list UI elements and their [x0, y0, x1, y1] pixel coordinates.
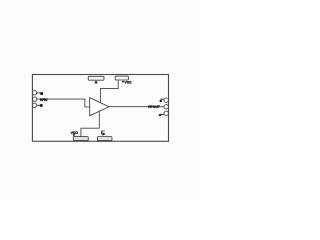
capacitor C1 (top-left pad) [88, 76, 104, 80]
VDD arrow [73, 134, 76, 136]
inductor L1 orientation arrow [102, 131, 105, 135]
VSS arrow [122, 81, 124, 83]
svg-text:VDD: VDD [71, 131, 79, 135]
capacitor C2 (top-right pad) [115, 76, 128, 80]
svg-text:RFIN: RFIN [40, 98, 48, 102]
svg-text:RFOUT: RFOUT [148, 105, 161, 109]
board outline [32, 75, 168, 142]
wire RFIN input [37, 99, 90, 107]
J1 top ground pad [37, 92, 41, 94]
connector J1 RFIN (left, 3 pins) [32, 91, 36, 95]
inductor L1 (bottom-right pad) [97, 137, 112, 141]
J2 bottom ground mark [161, 113, 164, 116]
wire VSS supply: C2 to amp top [100, 80, 118, 103]
op-amp U1 (amplifier triangle) [90, 98, 109, 116]
J1 bottom ground pad [37, 104, 40, 106]
wire RFOUT output [109, 106, 164, 108]
connector J2 RFOUT (right, 3 pins) [164, 98, 168, 102]
capacitor C3 (bottom-left pad) [73, 137, 88, 141]
orientation arrow under C1 [94, 80, 98, 83]
J2 top ground mark [161, 99, 164, 100]
svg-text:VSS: VSS [124, 81, 132, 85]
wire VDD: amp bottom to C3 [81, 112, 99, 137]
